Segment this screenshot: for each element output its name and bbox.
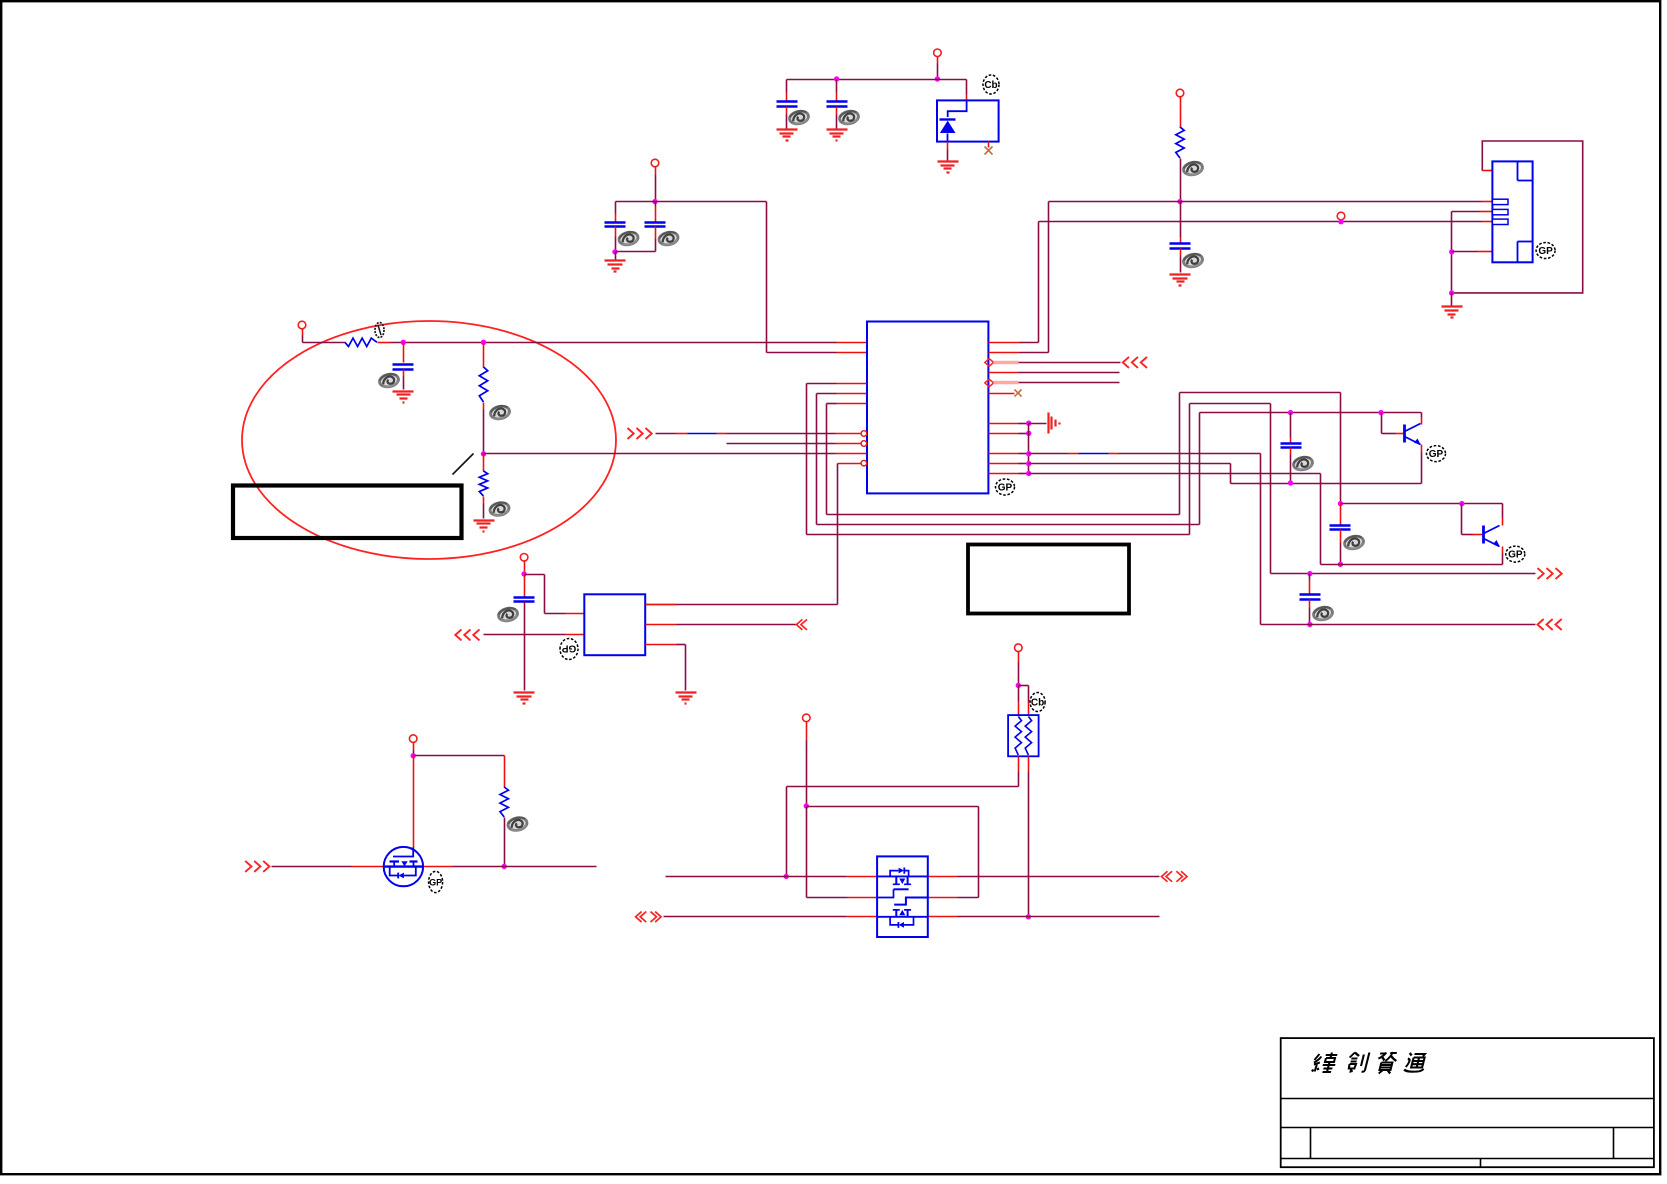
wire capT3 bottom: [1309, 600, 1311, 608]
wire net A vertical: [766, 202, 768, 353]
wire gate net: [272, 866, 352, 868]
wire P7 stub: [413, 743, 415, 751]
wire C3 bottom: [615, 227, 617, 237]
wire C4 bottom: [655, 227, 657, 239]
wire2 right: [928, 916, 958, 918]
wire net1: [656, 433, 676, 435]
junction bus e: [1026, 471, 1031, 476]
wire C4 drop: [655, 202, 657, 207]
wire U1 out6 stub: [989, 393, 1015, 395]
wire gnd bus vertical: [1028, 424, 1030, 474]
power node P3: [298, 321, 306, 329]
dual mosfet Q4: [877, 856, 928, 937]
ground D1: [938, 160, 959, 162]
wire C7 bottom: [524, 602, 526, 691]
wire U1 out2: [989, 352, 1020, 354]
wire U2 gnd: [646, 644, 677, 646]
wire U1 out1: [989, 342, 1020, 344]
wire1 right: [928, 876, 958, 878]
junction RN wire2: [1026, 914, 1031, 919]
wire net6: [1029, 463, 1231, 465]
power node P1: [934, 49, 942, 57]
company name text: [1312, 1053, 1339, 1073]
wire capT1 bottom: [1290, 448, 1292, 455]
wire C7 top: [524, 575, 526, 597]
pin bubble net4: [861, 460, 867, 466]
wire Q1 collector: [1421, 413, 1423, 418]
wire emitter2 return: [1322, 564, 1503, 566]
smudge R4 label: [507, 816, 528, 832]
title block: [1281, 1038, 1654, 1167]
junction conn a: [1449, 249, 1454, 254]
ground U2: [676, 691, 697, 693]
capacitor C3: [605, 221, 626, 224]
smudge C4 label: [658, 230, 679, 246]
junction gnd bus b: [1026, 431, 1031, 436]
wire C6 drop: [403, 343, 405, 363]
junction Q1 base: [1378, 410, 1383, 415]
callout box 1: [233, 486, 462, 539]
connector J1 body: [1492, 161, 1532, 262]
input arrows net1: [628, 428, 634, 439]
svg-text:GP: GP: [561, 642, 576, 653]
wire D1 to ground: [947, 142, 949, 150]
junction capT1 bottom: [1288, 480, 1293, 485]
arrows gate net: [245, 861, 251, 872]
wire U1 pin e: [989, 473, 1019, 475]
smudge CT3 label: [1312, 605, 1333, 621]
wire net4 to U2: [837, 464, 839, 605]
junction P8: [804, 803, 809, 808]
wire loop2 (pin y393): [837, 393, 867, 395]
power node P4: [1176, 89, 1184, 97]
wire U1 gnd pin: [989, 423, 1019, 425]
wire C1 drop: [786, 80, 788, 93]
wire P8 branch: [807, 806, 979, 808]
wire Q1 base: [1381, 413, 1383, 434]
wire to rground: [1029, 423, 1047, 425]
wire P8 cont: [806, 807, 808, 898]
label GP Q3: [429, 871, 443, 892]
wire P6 stub: [524, 561, 526, 575]
wire rail1: [1049, 201, 1482, 203]
wire C3-C4 bottom: [616, 251, 656, 253]
wire U1 out4: [989, 372, 1019, 374]
svg-text:GP: GP: [1508, 550, 1523, 561]
IC U2: [584, 594, 645, 655]
capacitor C5: [1170, 242, 1191, 245]
wire R3 top stub: [483, 454, 485, 472]
wire net4 stub: [838, 463, 862, 465]
callout box 2: [968, 545, 1129, 614]
junction RN wire1: [784, 874, 789, 879]
resistor R1: [345, 338, 377, 346]
wire P9 jog: [1019, 685, 1029, 687]
junction R2 top: [481, 340, 486, 345]
arrows out3: [1123, 357, 1129, 368]
wire into zener box: [966, 80, 968, 95]
wire P8 stub: [806, 722, 808, 741]
wire RN left top: [1018, 686, 1020, 702]
wire capT2 bottom: [1340, 530, 1342, 543]
wire P1 stub: [937, 57, 939, 64]
callout pointer line: [453, 454, 474, 475]
wire net5: [1029, 453, 1069, 455]
wire top rail y79: [787, 79, 967, 81]
wire loop1 (pin y383): [837, 383, 867, 385]
junction capT2 top: [1338, 501, 1343, 506]
wire RN left bottom: [1018, 757, 1020, 772]
wire capT3 top stub: [1309, 574, 1311, 580]
smudge C2 label: [838, 109, 859, 125]
wire U1 pin d: [989, 463, 1019, 465]
smudge R3 label: [489, 501, 510, 517]
mosfet Q3: [384, 847, 423, 886]
wire Q2 emitter: [1502, 547, 1504, 554]
wire R3 bottom: [483, 497, 485, 504]
wire conn pin1 stub: [1483, 170, 1493, 172]
resistor R2: [479, 367, 487, 402]
smudge C1 label: [788, 109, 809, 125]
wire out net8: [1271, 573, 1536, 575]
power node P5: [1337, 212, 1345, 220]
capacitor C1: [777, 100, 798, 103]
junction conn b: [1449, 290, 1454, 295]
arrows wire1: [1162, 871, 1168, 882]
arrows U2 in: [455, 629, 461, 640]
ground C6: [393, 390, 414, 392]
junction divider mid: [481, 451, 486, 456]
wire C2 bottom: [836, 107, 838, 115]
wire Q2 collector: [1502, 504, 1504, 518]
junction gnd bus a: [1026, 421, 1031, 426]
diode D1 internal: [948, 100, 967, 117]
wire U2 out1 stub: [646, 604, 677, 606]
pin stub D1 nc: [988, 142, 990, 148]
power node P2: [651, 159, 659, 167]
junction C6 top: [401, 340, 406, 345]
capacitor CT3: [1300, 593, 1321, 596]
transistor Q1: [1403, 425, 1406, 443]
transistor Q2: [1482, 526, 1485, 544]
highlight ellipse: [242, 321, 616, 559]
wire capT2 top stub: [1340, 504, 1342, 525]
wire1 left: [666, 876, 847, 878]
wire R5 top: [1180, 97, 1182, 128]
wire P5 stub: [1341, 220, 1343, 222]
no-connect X2: [1015, 390, 1022, 397]
label GP Q2: [1506, 546, 1525, 562]
wire RN right bottom: [1028, 757, 1030, 772]
label GP U2 rotated: [560, 639, 578, 660]
wire U1 pin c: [989, 453, 1019, 455]
wire U1 out3: [994, 361, 1019, 364]
ground connector: [1442, 305, 1463, 307]
ground C3C4: [615, 252, 617, 260]
power node P9: [1015, 644, 1023, 652]
smudge C6 label: [378, 372, 399, 388]
wire Q3 drain feed: [413, 756, 415, 849]
wire RN right top: [1028, 686, 1030, 702]
power node P6: [520, 554, 528, 562]
svg-text:GP: GP: [1429, 449, 1444, 460]
wire net A to U1: [767, 352, 837, 354]
wire C3 drop: [615, 202, 617, 214]
wire Q2 base: [1461, 504, 1463, 535]
junction capT2 bottom: [1338, 562, 1343, 567]
label GP U1: [996, 479, 1015, 495]
smudge R5 label: [1182, 160, 1203, 176]
smudge CT1 label: [1292, 455, 1313, 471]
capacitor CT2: [1330, 524, 1351, 527]
wire Q3 right: [424, 866, 453, 868]
svg-text:Cb: Cb: [1031, 698, 1044, 709]
wire conn pin5: [1452, 251, 1478, 253]
junction C2 top: [834, 76, 839, 81]
wire C6 bottom: [403, 370, 405, 377]
junction capT3 top: [1307, 571, 1312, 576]
resistor pack RN: [1008, 715, 1039, 756]
label GP Q1: [1427, 446, 1446, 462]
ground C1: [777, 128, 798, 130]
pin bubble net2: [861, 441, 867, 447]
pin bubble net1: [861, 431, 867, 437]
resistor R5: [1176, 127, 1184, 158]
wire P7 to R4: [414, 755, 505, 757]
wire R2 top stub: [483, 343, 485, 368]
wire net7: [1029, 473, 1321, 475]
wire P3 stub: [302, 329, 304, 336]
junction R4 bottom: [502, 864, 507, 869]
wire U1 out5: [994, 381, 1019, 384]
pin diamond out3: [985, 359, 994, 367]
ground C2: [827, 128, 848, 130]
wire loop3 (pin y403): [837, 403, 867, 405]
wire R4 top stub: [504, 756, 506, 788]
wire C1 bottom: [786, 107, 788, 115]
junction capT3 bottom: [1307, 622, 1312, 627]
wire U1 pin b: [989, 433, 1019, 435]
wire in net9: [1261, 624, 1536, 626]
wire U2 in: [484, 634, 566, 636]
label GP J1: [1536, 243, 1555, 259]
arrows net9: [1538, 619, 1544, 630]
power node P7: [409, 735, 417, 743]
arrows wire2 in: [636, 912, 642, 923]
junction R5: [1177, 199, 1182, 204]
junction P1: [935, 76, 940, 81]
wire rail2: [1039, 221, 1482, 223]
ground R3: [474, 519, 495, 521]
resistor R4: [500, 787, 508, 817]
ground right-facing: [1047, 413, 1049, 434]
resistor R3: [479, 471, 487, 496]
wire P6 to U2: [525, 574, 545, 576]
power node P8: [803, 714, 811, 722]
ground C7: [514, 691, 535, 693]
no-connect X1: [985, 147, 993, 155]
junction P9: [1016, 683, 1021, 688]
svg-text:Cb: Cb: [984, 80, 997, 91]
wire capT2 net: [1341, 503, 1462, 505]
wire capT1 top: [1290, 413, 1292, 438]
wire C5 bottom: [1180, 249, 1182, 257]
junction C3 gnd: [612, 249, 617, 254]
svg-text:GP: GP: [429, 877, 442, 887]
wire R5 bottom: [1180, 159, 1182, 202]
wire rail y201: [616, 201, 767, 203]
capacitor C7: [514, 596, 535, 599]
smudge CT2 label: [1343, 534, 1364, 550]
junction bus c: [1026, 451, 1031, 456]
ground C5: [1170, 273, 1191, 275]
wire conn gnd: [1451, 293, 1453, 306]
junction P2: [652, 199, 657, 204]
zener diode box D1: [937, 100, 999, 141]
wire conn pin3: [1451, 212, 1453, 293]
label Cb RN: [1030, 693, 1045, 712]
connector loop wire: [1452, 141, 1583, 293]
wire C2 drop: [836, 80, 838, 93]
capacitor CT1: [1281, 442, 1302, 445]
smudge R2 label: [489, 404, 510, 420]
junction P6: [521, 571, 526, 576]
svg-text:GP: GP: [998, 483, 1013, 494]
junction Q2 base: [1459, 501, 1464, 506]
pin diamond out5: [985, 379, 994, 387]
smudged ref R1: [375, 323, 384, 338]
wire R2 bottom: [483, 403, 485, 410]
wire P2 stub: [655, 167, 657, 175]
wire U2 out2: [646, 624, 677, 626]
junction P5: [1338, 219, 1343, 224]
junction bus d: [1026, 461, 1031, 466]
junction capT1 top: [1288, 410, 1293, 415]
wire P9 stub: [1018, 652, 1020, 663]
svg-text:GP: GP: [1538, 246, 1553, 257]
wire net2: [727, 443, 836, 445]
wire R4 bottom: [504, 818, 506, 867]
capacitor C6: [393, 363, 414, 366]
label Cb D1: [983, 75, 999, 94]
smudge C3 label: [618, 230, 639, 246]
wire C5 drop: [1180, 202, 1182, 238]
wire net3: [484, 453, 836, 455]
arrows U2 out2: [796, 619, 802, 630]
arrows net8: [1538, 568, 1544, 579]
junction P7: [411, 753, 416, 758]
wire2 left: [664, 916, 847, 918]
capacitor C4: [645, 221, 666, 224]
smudge C7 label: [497, 606, 518, 622]
capacitor C2: [827, 100, 848, 103]
wire Q1 emitter: [1421, 445, 1423, 453]
wire RN to wire1: [787, 786, 1019, 788]
IC U1: [867, 322, 988, 494]
smudge C5 label: [1182, 252, 1203, 268]
wire R1 to U1: [378, 342, 391, 344]
